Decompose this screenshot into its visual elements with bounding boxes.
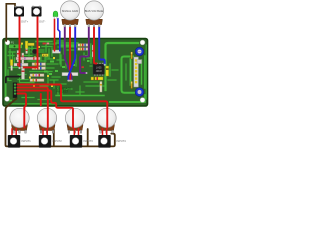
potentiometer VR-B bottom 2 [37, 108, 56, 133]
trace segs center [60, 44, 78, 47]
wire red jack4 stubs [103, 129, 107, 136]
svg-text:OUT-: OUT- [39, 20, 46, 24]
resistor R-horiz beige 4 [30, 79, 44, 82]
jack INPUT3 [70, 135, 82, 148]
resistor R-vert pale 1 [17, 51, 19, 63]
wire brown ground top from OUT+ jack [6, 4, 15, 41]
mounting hole top-left [5, 40, 10, 45]
mounting hole bottom-right [140, 98, 145, 103]
wire red OUT- vertical with elbow [22, 17, 38, 68]
label pad yellow 1 [28, 43, 34, 46]
wire red bus W3 header to pot3 [18, 91, 74, 120]
svg-text:INPUT2: INPUT2 [53, 139, 63, 143]
trace right edge vertical [144, 56, 146, 88]
svg-text:PROJECT: PROJECT [57, 91, 69, 94]
trace segs upper-left [9, 51, 15, 53]
jack INPUT2 [39, 135, 51, 148]
trace pads column left of SIL strip [130, 59, 132, 85]
wire pads under LED wires [52, 50, 60, 53]
jack INPUT1 [8, 135, 20, 148]
potentiometer P2 BIAS VOLTAGE [84, 1, 103, 27]
potentiometer VR-A bottom 1 [10, 108, 29, 133]
pad red [43, 43, 47, 45]
pads pot1 wire ends [67, 80, 69, 82]
capacitor C-vert pale mid-left [22, 68, 25, 79]
svg-text:SIGNAL GAIN: SIGNAL GAIN [62, 9, 79, 13]
wire red bus W4 header to pot1 [18, 94, 27, 120]
small pale box right [137, 60, 142, 64]
diode D vertical thin [92, 45, 94, 57]
wire red OUT+ vertical [19, 17, 21, 68]
resistor R-vert pale right-bottom [100, 82, 102, 93]
label pad yellow 2 [42, 54, 48, 57]
trace bottom-right horizontal [110, 101, 144, 103]
wire red LED anode [54, 19, 56, 51]
resistor R-horiz pale short [14, 63, 28, 66]
header J5 black 4-pin left [13, 83, 17, 98]
wire purple pot2 lug1 [80, 27, 89, 73]
PCB board [3, 39, 148, 107]
pin bottom gold [131, 82, 133, 89]
potentiometer P1 SIGNAL GAIN [60, 1, 79, 27]
wire red pot1-bottom overlay [23, 109, 25, 128]
pad ends of OUT wires [18, 67, 20, 69]
svg-text:OUT+: OUT+ [21, 20, 29, 24]
copper trace pour left [6, 41, 147, 104]
wire red pot2-bottom overlay [47, 109, 49, 128]
potentiometer VR-C bottom 3 [65, 108, 84, 133]
wire black ground mid-left [6, 77, 20, 83]
trace right big L [106, 43, 139, 90]
potentiometer VR-D bottom 4 [97, 108, 116, 133]
wire brown ground bottom chain [6, 99, 115, 147]
resistor R-horiz yellow below chip [91, 77, 103, 80]
resistor R-vert yellow mid-left [10, 60, 12, 71]
resistor R-horiz beige 3 [30, 74, 44, 77]
extra trace density left/center [9, 50, 11, 63]
wire brown riser jack3 [87, 129, 89, 146]
wire red jack2 stubs [43, 129, 47, 136]
wire red stub on board [40, 94, 42, 105]
svg-text:INPUT3: INPUT3 [84, 139, 94, 143]
trace chip surround [90, 55, 92, 63]
wire red jack3 stubs [74, 129, 78, 136]
resistor R-vert pale 2 [22, 53, 24, 64]
resistor R-vert yellow right of chip [106, 66, 109, 76]
svg-text:BIAS VOLTAGE: BIAS VOLTAGE [85, 9, 104, 13]
resistor R-horiz pink long [16, 57, 40, 60]
mounting hole top-right [140, 40, 145, 45]
trace top-left strip [9, 45, 22, 49]
svg-text:INPUT1: INPUT1 [22, 139, 32, 143]
wire red pot4-bottom overlay [106, 109, 108, 128]
wire purple pot1 lug1 (crosses right) [65, 27, 72, 80]
wire brown riser jack2 [53, 130, 55, 147]
resistor R-horiz beige pair right of pot1 area [78, 44, 89, 47]
pad pink [47, 43, 50, 45]
pin top gold [131, 52, 133, 59]
white strip behind pot1 wire ends [62, 73, 78, 76]
mounting hole bottom-left [5, 97, 10, 102]
trace left edge vertical [6, 44, 11, 101]
jack OUT- top [32, 6, 42, 17]
jack OUT+ top [14, 6, 24, 17]
trimmer VR2 blue bottom [135, 88, 144, 97]
LED D1 green [53, 11, 58, 19]
jack INPUT4 [98, 135, 110, 148]
wire red pot3-bottom overlay [72, 109, 74, 128]
wire red bus W2 header to pot2 [18, 88, 48, 120]
wire red jack1 stubs [12, 129, 16, 136]
wire blue LED cathode [58, 19, 60, 51]
pad red small left of chip [82, 66, 84, 68]
IC U1 chip [93, 63, 105, 76]
wire blue pot1 lug3 (crosses left) [68, 27, 75, 80]
svg-text:INPUT4: INPUT4 [117, 139, 127, 143]
resistor R-horiz beige 1 [32, 63, 46, 66]
wire red pot1 lug2 [69, 27, 71, 80]
trace long horizontal above bottom edge [56, 95, 104, 97]
wire red pot2 lug2 [94, 27, 97, 64]
capacitor C black round [32, 49, 37, 54]
wire blue pot2 lug3 [99, 27, 105, 65]
svg-text:JRC8: JRC8 [96, 70, 103, 73]
resistor R-horiz beige 2 [32, 67, 46, 70]
wire red bus W1 header to pot4 [18, 85, 108, 120]
via pads yellow [21, 43, 55, 87]
trimmer VR1 blue top [135, 47, 144, 56]
trace nested L right [122, 57, 135, 93]
resistor R-vert yellow top-left [25, 41, 28, 54]
SIL header strip right [134, 57, 139, 87]
pad cluster bright center [44, 55, 90, 75]
